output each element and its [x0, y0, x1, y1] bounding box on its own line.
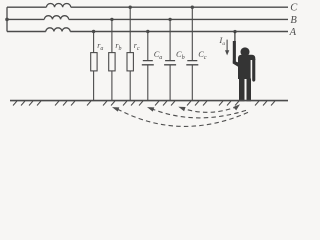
node: r_b tap on phase B [110, 18, 113, 21]
wire: r_b bottom lead [111, 71, 113, 101]
person: shoulder wedge to raised arm [233, 61, 239, 68]
wire: C_c bottom lead [191, 65, 193, 101]
person: hanging right arm [252, 59, 255, 82]
svg-text:rb: rb [115, 41, 121, 52]
svg-text:rc: rc [134, 41, 140, 52]
person: raised arm touching wire [233, 32, 236, 64]
resistor r_b [109, 53, 115, 71]
node: left bus junction dot [5, 18, 9, 22]
dashed earth-current path 2 (to C_a ground) [153, 109, 247, 118]
person: torso [238, 55, 255, 79]
wire: C_b top lead [169, 19, 171, 60]
wire: r_a top lead [93, 32, 95, 53]
node: C_c tap on phase C [191, 6, 194, 9]
inductor on phase A [46, 28, 70, 32]
arrowhead of path 2 [147, 107, 154, 112]
wire: phase line A (bottom) [7, 31, 288, 33]
svg-text:Ia: Ia [218, 35, 225, 47]
arrow: current I_a direction (down) [225, 40, 229, 56]
wire: phase line B (middle) [7, 18, 288, 20]
ground: earth surface line [10, 100, 288, 102]
node: person hand contact on phase A [233, 30, 236, 33]
resistor r_a [91, 53, 97, 71]
arrowhead at person's feet (up-right) [233, 104, 240, 110]
capacitor C_a [142, 61, 154, 65]
ground: hatch marks [13, 101, 275, 106]
inductor on phase C [46, 3, 70, 7]
wire: r_c bottom lead [129, 71, 131, 101]
arrowhead of path 1 [112, 107, 119, 112]
svg-text:Cb: Cb [176, 50, 185, 61]
wire: r_b top lead [111, 19, 113, 52]
wire: r_c top lead [129, 7, 131, 52]
svg-text:C: C [290, 3, 298, 14]
capacitor C_b [164, 61, 176, 65]
svg-text:A: A [289, 27, 297, 38]
arrowhead of path 3 [178, 107, 185, 112]
dashed earth-current path 3 (to C_b/C_c ground) [184, 106, 238, 112]
dashed earth-current path 1 (to r_a ground) [118, 109, 249, 126]
person: head [240, 47, 249, 56]
person: right leg [247, 79, 252, 102]
node: r_c tap on phase C [129, 6, 132, 9]
wire: C_b bottom lead [169, 65, 171, 101]
svg-text:B: B [290, 15, 297, 26]
wire: C_a bottom lead [147, 65, 149, 101]
node: C_b tap on phase B [168, 18, 171, 21]
capacitor C_c [186, 61, 198, 65]
svg-text:Cc: Cc [198, 50, 207, 61]
person: left leg [239, 79, 245, 102]
resistor r_c [127, 53, 133, 71]
svg-text:Ca: Ca [154, 50, 163, 61]
wire: r_a bottom lead [93, 71, 95, 101]
wire: left bus connecting phases [6, 7, 8, 31]
node: C_a tap on phase A [146, 30, 149, 33]
node: r_a tap on phase A [92, 30, 95, 33]
wire: C_a top lead [147, 32, 149, 61]
inductor on phase B [44, 16, 68, 20]
wire: phase line C (top) [7, 6, 288, 8]
wire: C_c top lead [191, 7, 193, 60]
svg-text:ra: ra [97, 41, 103, 52]
